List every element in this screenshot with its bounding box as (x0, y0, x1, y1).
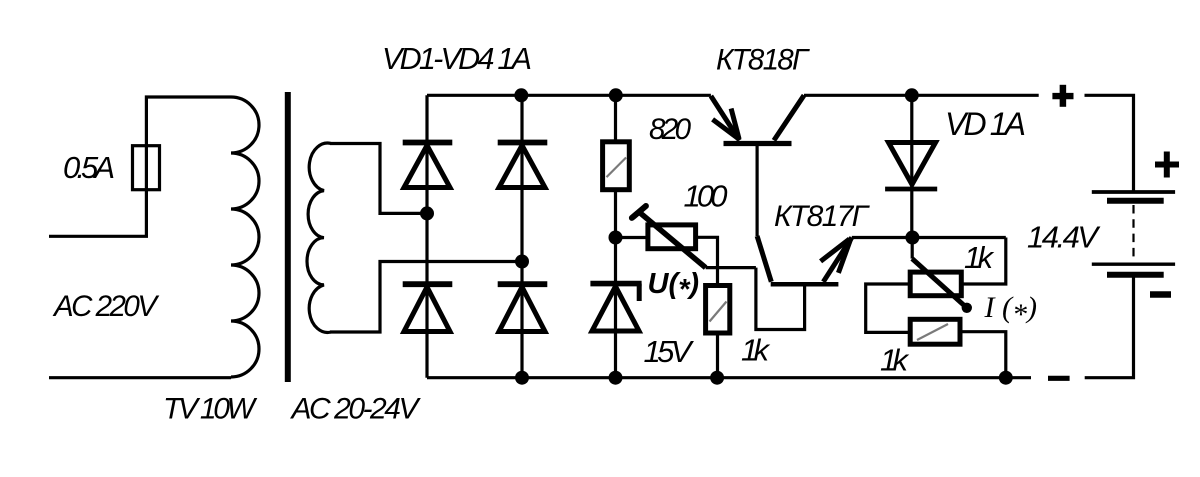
svg-text:1k: 1k (741, 333, 771, 368)
battery minus marking (1150, 291, 1171, 298)
wire AC input top (49, 97, 231, 236)
plus terminal symbol (1052, 85, 1073, 107)
diode VD4 (bridge col2 bottom) (498, 284, 548, 331)
resistor 820 (603, 142, 630, 190)
node bottom rail / right 1k (999, 371, 1013, 385)
transformer TV primary coil (231, 97, 259, 377)
node top rail / VD (905, 88, 919, 102)
battery cell1 short plate (1107, 198, 1164, 204)
wire AC input bottom (49, 376, 231, 379)
svg-text:820: 820 (649, 113, 692, 146)
wire top rail right of KT818 (804, 94, 1039, 97)
zener diode 15V (590, 284, 641, 331)
diode VD3 (bridge col1 bottom) (403, 284, 453, 331)
svg-text:TV 10W: TV 10W (163, 393, 258, 426)
battery cell1 long plate (1092, 190, 1175, 194)
potentiometer 100 (632, 206, 706, 268)
wire bridge column 1 (425, 95, 428, 377)
resistor 1k (lower right) (910, 319, 960, 344)
svg-text:15V: 15V (644, 334, 695, 369)
wire right pot right terminal loop (961, 238, 1006, 285)
transistor Q1 KT818G (711, 95, 804, 236)
wire bottom rail battery side (1085, 275, 1134, 378)
svg-text:1k: 1k (880, 343, 910, 378)
node bridge AC2 (515, 255, 529, 269)
svg-text:14.4V: 14.4V (1027, 220, 1101, 255)
wire node B to pot left (616, 236, 648, 239)
diode VD2 (bridge col2 top) (498, 143, 548, 188)
node top rail / col2 (514, 88, 528, 102)
svg-text:AC 20-24V: AC 20-24V (290, 393, 422, 426)
battery dashed link (1132, 205, 1134, 262)
battery GB 14.4V (1092, 152, 1179, 295)
wire bridge column 2 (520, 95, 523, 377)
wire pot right to 1k top (696, 237, 718, 377)
wire bottom rail (427, 376, 1031, 379)
fuse 0.5A (133, 146, 160, 190)
svg-text:КТ818Г: КТ818Г (716, 44, 810, 77)
wire secondary bottom to bridge (330, 262, 522, 333)
wire pot wiper to KT817 base (706, 266, 756, 269)
wire VD column (910, 95, 913, 237)
battery cell2 long plate (1092, 263, 1175, 266)
wire KT817 base routing (756, 268, 805, 330)
node bridge AC1 (420, 206, 434, 220)
wire KT817 emitter to node A to right (852, 236, 1006, 239)
transformer TV secondary coil (307, 143, 331, 332)
wire top rail to battery (1085, 95, 1134, 192)
node bottom rail / zener (609, 371, 623, 385)
battery plus marking (1155, 162, 1179, 168)
svg-text:VD1-VD4 1A: VD1-VD4 1A (382, 42, 532, 76)
wire top rail left of KT818 (427, 94, 711, 97)
wire 820/zener column (614, 95, 617, 377)
node bottom rail / 1k (710, 371, 724, 385)
node top rail / 820 (609, 88, 623, 102)
battery cell2 short plate (1107, 272, 1164, 278)
node B (820/zener/pot) (609, 231, 623, 245)
svg-text:VD 1A: VD 1A (945, 106, 1026, 142)
wire lower 1k right to bottom rail (960, 332, 1006, 378)
node A (output sense) (905, 231, 919, 245)
transformer core (285, 92, 291, 382)
wire right pot left loop to lower 1k (866, 284, 911, 332)
svg-text:0.5A: 0.5A (63, 150, 115, 185)
node bottom rail / col2 (515, 371, 529, 385)
minus terminal symbol (1048, 376, 1070, 381)
diode VD (output protection) (885, 143, 937, 190)
svg-text:КТ817Г: КТ817Г (774, 200, 871, 233)
diode VD1 (bridge col1 top) (403, 143, 453, 188)
svg-text:AC 220V: AC 220V (52, 290, 159, 323)
svg-text:100: 100 (684, 179, 728, 214)
wire secondary top to bridge (330, 144, 427, 214)
potentiometer 1k (current set, upper right) (910, 238, 972, 313)
resistor 1k (voltage divider) (706, 286, 730, 334)
svg-text:1k: 1k (964, 240, 995, 275)
transistor Q2 KT817G (757, 236, 852, 284)
